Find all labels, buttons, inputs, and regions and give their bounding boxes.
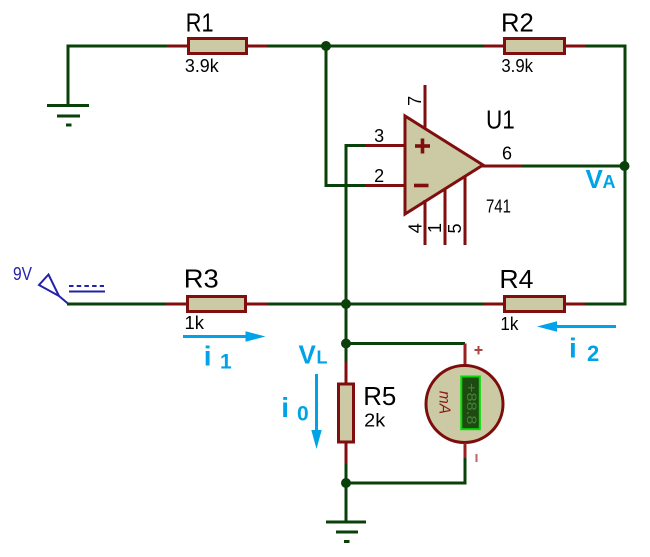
svg-text:i: i bbox=[569, 332, 577, 363]
ammeter plus terminal label bbox=[475, 346, 483, 354]
current arrow i1 bbox=[183, 331, 266, 341]
wire: top row middle segment bbox=[267, 45, 484, 48]
label i1 bbox=[204, 340, 232, 373]
svg-text:V: V bbox=[299, 339, 317, 369]
svg-text:4: 4 bbox=[406, 223, 426, 233]
pin 4 bbox=[406, 200, 426, 245]
ground (top-left) bbox=[47, 106, 89, 126]
ammeter bottom pin bbox=[464, 443, 467, 458]
pin 3 (+IN) bbox=[366, 126, 405, 146]
wire: pin 3 net vertical (to R3/R4/R5 node) bbox=[346, 146, 366, 344]
pin 5 bbox=[445, 176, 465, 245]
svg-text:R2: R2 bbox=[501, 7, 534, 37]
svg-text:1: 1 bbox=[425, 223, 445, 233]
svg-text:3: 3 bbox=[374, 126, 384, 146]
ammeter minus terminal label bbox=[476, 454, 478, 462]
svg-text:R1: R1 bbox=[186, 7, 214, 37]
node VA junction bbox=[620, 161, 630, 171]
wire: top-left vertical to ground bbox=[67, 46, 70, 105]
svg-text:7: 7 bbox=[405, 96, 425, 106]
resistor R4 bbox=[484, 264, 585, 334]
svg-text:U1: U1 bbox=[486, 105, 515, 135]
node: bottom ground junction bbox=[341, 478, 351, 488]
wire: R5 bottom green bbox=[345, 464, 348, 484]
current arrow i2 bbox=[537, 321, 616, 331]
resistor R2 bbox=[484, 7, 585, 76]
svg-text:V: V bbox=[586, 164, 604, 194]
svg-text:2: 2 bbox=[587, 341, 599, 366]
svg-text:1k: 1k bbox=[185, 313, 206, 333]
svg-text:6: 6 bbox=[502, 144, 512, 164]
wire: ammeter bottom to ground node bbox=[346, 458, 465, 483]
current arrow i0 bbox=[311, 374, 321, 449]
svg-text:2k: 2k bbox=[364, 411, 386, 431]
source DC generator symbol bbox=[39, 275, 105, 305]
svg-text:mA: mA bbox=[436, 391, 453, 414]
svg-text:1k: 1k bbox=[500, 314, 519, 334]
svg-text:5: 5 bbox=[445, 223, 465, 233]
label i2 bbox=[569, 332, 599, 366]
ammeter LCD display bbox=[461, 377, 480, 430]
pin 6 (output) bbox=[482, 144, 521, 167]
pin 1 bbox=[425, 188, 445, 245]
ground (bottom) bbox=[326, 522, 366, 542]
ammeter AM1 body bbox=[426, 366, 503, 443]
node: R3/R4/pin3 junction bbox=[341, 299, 351, 309]
wire: R5 top green bbox=[345, 344, 348, 364]
op-amp plus symbol bbox=[415, 139, 430, 154]
svg-text:0: 0 bbox=[297, 403, 309, 426]
resistor R1 bbox=[167, 7, 267, 76]
node: junction R1/R2/pin2 bbox=[321, 41, 331, 51]
pin 2 (-IN) bbox=[366, 166, 405, 186]
svg-text:9V: 9V bbox=[13, 264, 32, 284]
svg-text:3.9k: 3.9k bbox=[185, 56, 220, 76]
ammeter top pin bbox=[464, 344, 467, 366]
op-amp U1 bbox=[405, 105, 515, 217]
op-amp minus symbol bbox=[414, 184, 429, 188]
wire: mid row left segment bbox=[67, 303, 166, 306]
wire: output to right rail bbox=[521, 165, 627, 168]
svg-text:A: A bbox=[603, 172, 616, 192]
svg-text:R3: R3 bbox=[184, 264, 219, 294]
wire: top-right corner and right rail bbox=[585, 46, 625, 304]
svg-text:741: 741 bbox=[486, 196, 511, 216]
svg-text:1: 1 bbox=[220, 351, 232, 374]
svg-text:2: 2 bbox=[374, 166, 384, 186]
node: R5/ammeter junction bbox=[341, 339, 351, 349]
wire: mid row middle segment bbox=[268, 303, 484, 306]
svg-text:+88.8: +88.8 bbox=[464, 383, 479, 425]
resistor R5 bbox=[339, 362, 397, 464]
svg-text:i: i bbox=[204, 340, 212, 371]
svg-text:3.9k: 3.9k bbox=[501, 56, 534, 76]
pin 7 (V+) bbox=[405, 85, 425, 129]
node label VA bbox=[586, 164, 616, 194]
label VL bbox=[299, 339, 328, 369]
wire: down to ground bbox=[345, 483, 348, 522]
resistor R3 bbox=[166, 264, 268, 334]
wire: vertical from junction to pin 2 bbox=[326, 46, 366, 186]
svg-text:i: i bbox=[281, 392, 289, 423]
label i0 bbox=[281, 392, 308, 426]
svg-text:R5: R5 bbox=[363, 381, 396, 411]
svg-text:R4: R4 bbox=[499, 264, 533, 294]
wire: node to ammeter top bbox=[346, 342, 465, 345]
svg-text:L: L bbox=[317, 347, 328, 367]
wire: top row left segment bbox=[67, 45, 168, 48]
wire: mid row right segment bbox=[585, 303, 627, 306]
